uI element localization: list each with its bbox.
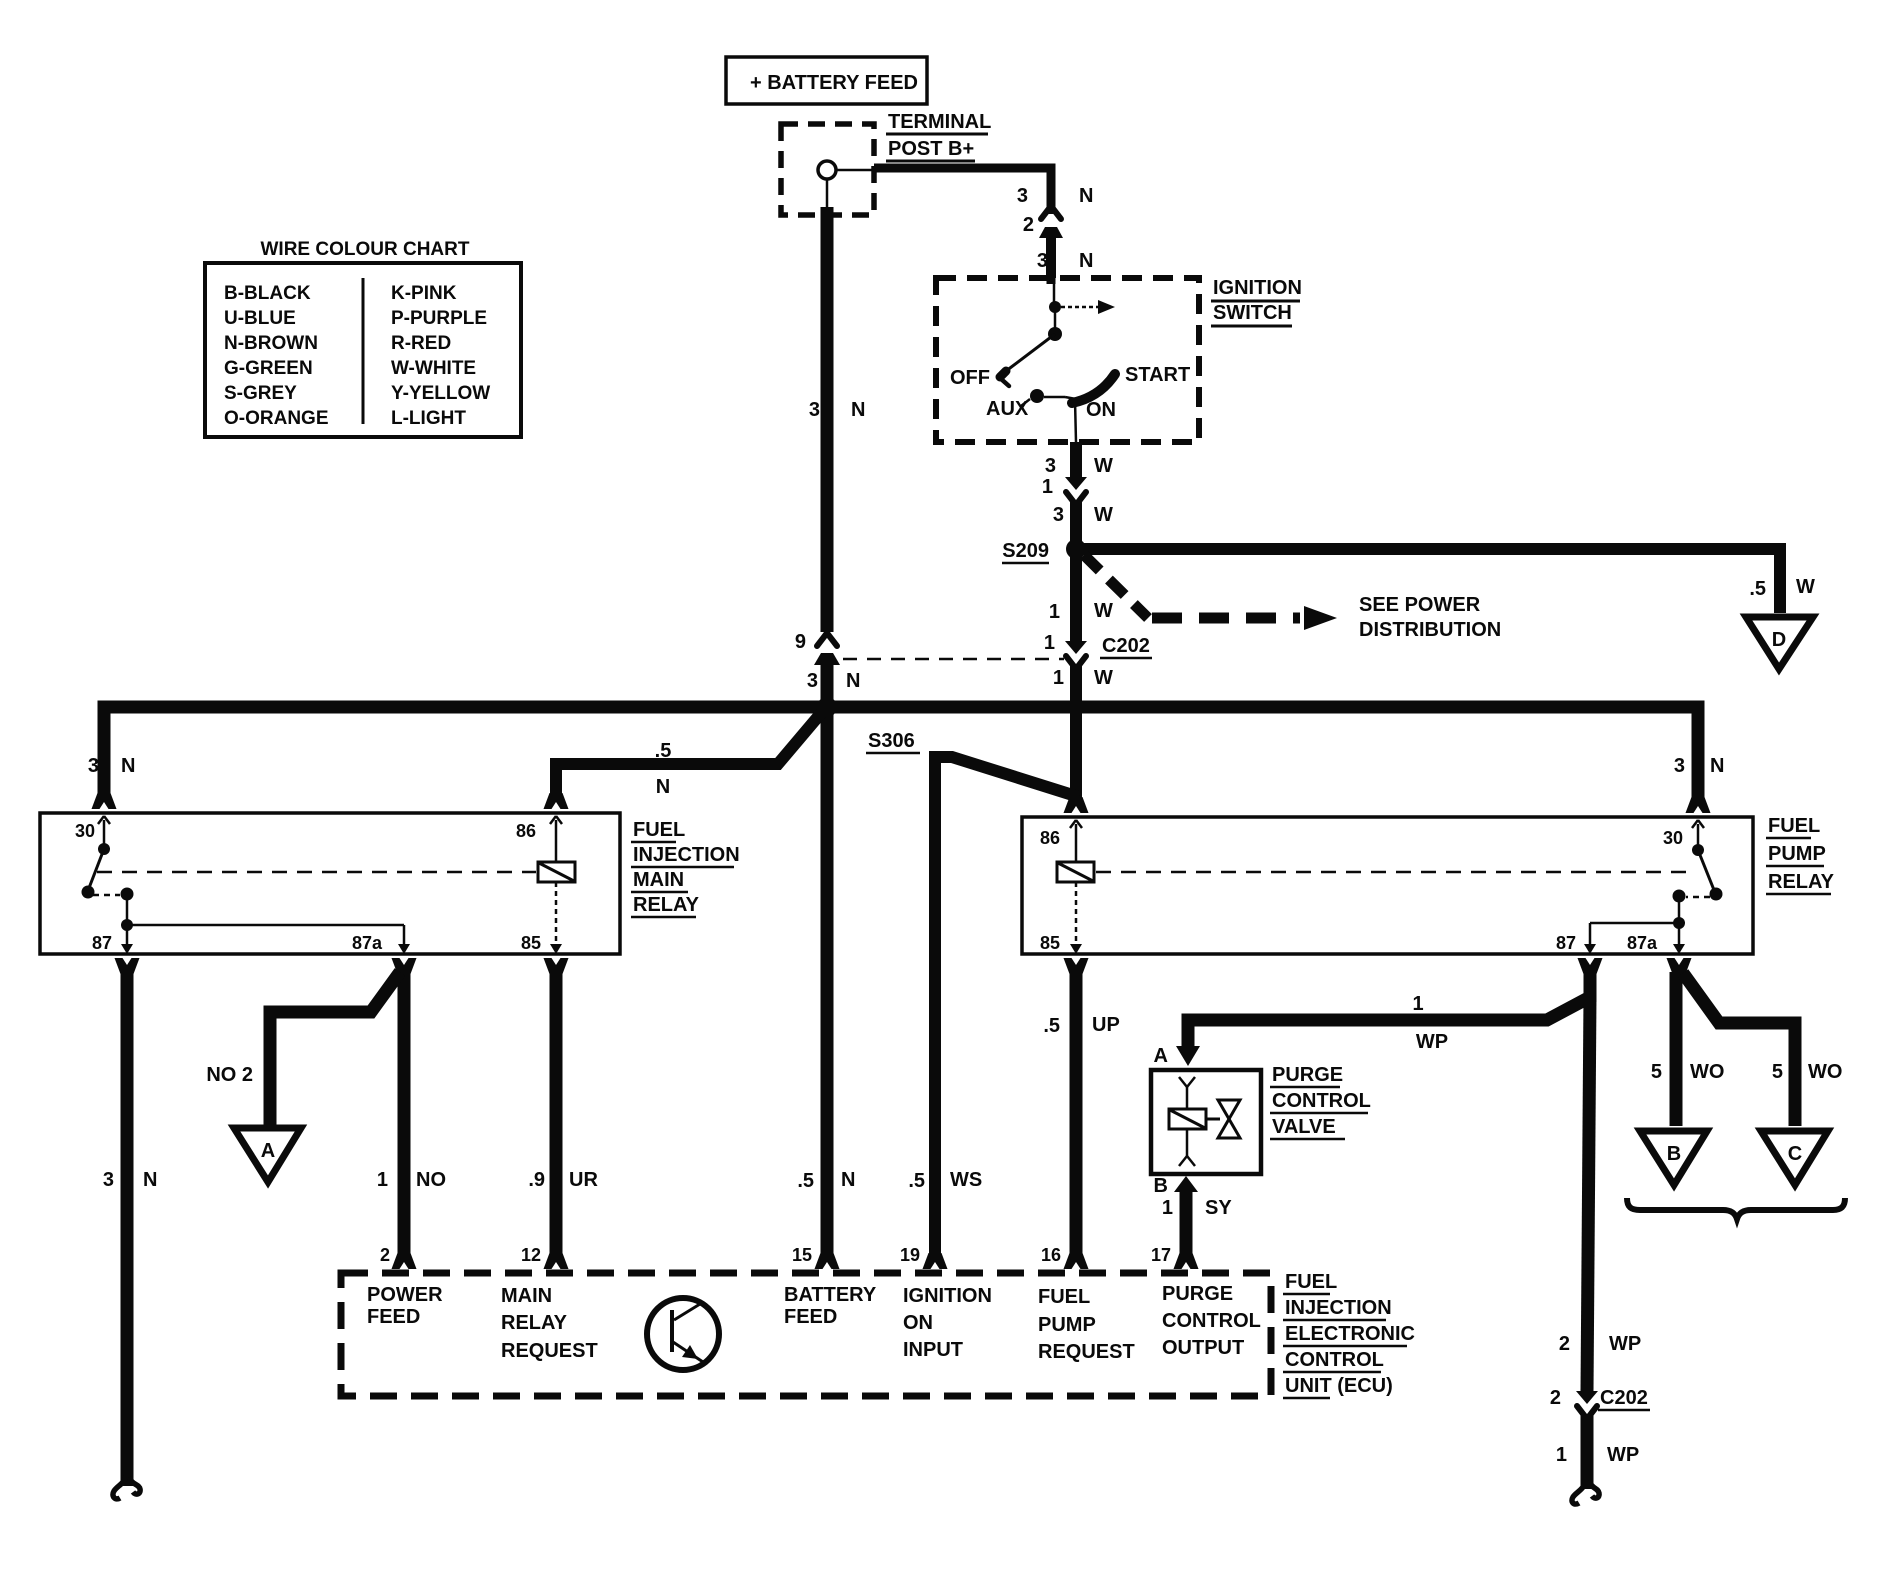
- svg-text:U-BLUE: U-BLUE: [224, 308, 296, 329]
- svg-text:3: 3: [809, 399, 820, 421]
- arrow into purge valve pin A: [1176, 1046, 1200, 1066]
- svg-text:2: 2: [1559, 1333, 1570, 1355]
- switch inside main relay: [82, 820, 411, 954]
- wire: feed into switch: [1047, 278, 1056, 284]
- svg-text:87: 87: [1556, 933, 1576, 953]
- svg-text:ON: ON: [903, 1312, 933, 1334]
- svg-text:2: 2: [380, 1245, 390, 1265]
- pin 87a bottom fork (pump relay): [1667, 958, 1692, 974]
- pin 87 bottom fork (pump relay): [1578, 958, 1603, 974]
- pin 86 terminal fork (main relay): [516, 793, 569, 841]
- svg-text:WP: WP: [1416, 1031, 1448, 1053]
- node: wiper pivot dot: [1048, 327, 1062, 341]
- svg-text:5: 5: [1651, 1061, 1662, 1083]
- pin 85 bottom fork (pump relay): [1064, 958, 1089, 974]
- wire end hook (3 N): [113, 1476, 126, 1499]
- svg-text:W-WHITE: W-WHITE: [391, 358, 476, 379]
- C202 label: [1100, 635, 1152, 658]
- svg-text:.9: .9: [528, 1169, 545, 1191]
- ECU transistor symbol: [647, 1298, 719, 1370]
- AUX contact dot: [1030, 389, 1044, 403]
- wire: main relay 85 to ECU pin 12 (.9 UR): [550, 972, 563, 1254]
- svg-text:RELAY: RELAY: [1768, 871, 1835, 893]
- svg-text:UNIT (ECU): UNIT (ECU): [1285, 1375, 1393, 1397]
- svg-text:16: 16: [1041, 1245, 1061, 1265]
- svg-text:B: B: [1667, 1143, 1681, 1165]
- pin 30 terminal fork (pump relay): [1663, 797, 1711, 848]
- FUEL PUMP RELAY label: [1766, 815, 1835, 894]
- svg-text:WIRE COLOUR CHART: WIRE COLOUR CHART: [261, 239, 470, 260]
- connector C202 lower (arrow down, fork below): [1550, 1387, 1598, 1419]
- svg-text:UR: UR: [569, 1169, 598, 1191]
- svg-text:POST B+: POST B+: [888, 138, 974, 160]
- node S209 dot overlay: [1066, 539, 1086, 559]
- svg-text:12: 12: [521, 1245, 541, 1265]
- wire: connector 2 to ignition switch box (3 N): [1046, 234, 1056, 278]
- svg-text:WP: WP: [1607, 1444, 1639, 1466]
- svg-text:B-BLACK: B-BLACK: [224, 283, 311, 304]
- wire colour chart left column: [224, 283, 329, 429]
- svg-text:1: 1: [1162, 1197, 1173, 1219]
- svg-text:POWER: POWER: [367, 1284, 443, 1306]
- wire: branch to purge valve A (1 WP): [1188, 996, 1592, 1048]
- pin 87 bottom fork (main relay): [115, 958, 140, 974]
- svg-text:A: A: [1154, 1045, 1168, 1067]
- svg-text:1: 1: [1049, 601, 1060, 623]
- wire: ignition on input to ECU pin 19 and relay 86 (.5 WS): [935, 757, 1079, 1254]
- main feed horizontal wire (S306 net): [104, 707, 1698, 798]
- svg-text:WO: WO: [1808, 1061, 1842, 1083]
- wire: circle down inside box: [826, 179, 829, 215]
- svg-text:REQUEST: REQUEST: [1038, 1341, 1135, 1363]
- svg-text:L-LIGHT: L-LIGHT: [391, 408, 466, 429]
- wire: pump relay 87 down (WP net): [1584, 972, 1597, 1002]
- svg-text:1: 1: [1044, 632, 1055, 654]
- ECU pin function labels: [367, 1283, 1261, 1363]
- svg-text:W: W: [1094, 504, 1113, 526]
- wire: terminal post to ignition switch (3 N): [874, 168, 1051, 214]
- svg-text:2: 2: [1023, 214, 1034, 236]
- svg-text:30: 30: [1663, 828, 1683, 848]
- svg-text:FEED: FEED: [784, 1306, 837, 1328]
- svg-text:3: 3: [1017, 185, 1028, 207]
- ON contact and START arc: [1065, 397, 1076, 399]
- svg-text:86: 86: [1040, 828, 1060, 848]
- FUEL INJECTION ELECTRONIC CONTROL UNIT (ECU) label: [1283, 1271, 1415, 1398]
- svg-text:5: 5: [1772, 1061, 1783, 1083]
- svg-text:WP: WP: [1609, 1333, 1641, 1355]
- ECU pin 16 fork: [1041, 1245, 1089, 1269]
- svg-text:C: C: [1788, 1143, 1802, 1165]
- svg-text:INPUT: INPUT: [903, 1339, 963, 1361]
- fuel pump relay box: [1022, 817, 1753, 954]
- svg-text:MAIN: MAIN: [633, 869, 684, 891]
- terminal post circle: [818, 161, 836, 179]
- svg-text:9: 9: [795, 631, 806, 653]
- svg-text:FUEL: FUEL: [1285, 1271, 1337, 1293]
- svg-text:N: N: [841, 1169, 855, 1191]
- svg-text:K-PINK: K-PINK: [391, 283, 457, 304]
- battery feed label box: [726, 57, 927, 104]
- svg-text:O-ORANGE: O-ORANGE: [224, 408, 329, 429]
- svg-text:Y-YELLOW: Y-YELLOW: [391, 383, 490, 404]
- svg-text:TERMINAL: TERMINAL: [888, 111, 991, 133]
- triangle D: [1746, 617, 1813, 669]
- svg-text:.5: .5: [797, 1170, 814, 1192]
- svg-text:C202: C202: [1600, 1387, 1648, 1409]
- svg-text:WO: WO: [1690, 1061, 1724, 1083]
- wire: battery feed to S306 and ECU pin 15 (3 N / .5 N): [821, 660, 834, 1254]
- svg-text:30: 30: [75, 821, 95, 841]
- node TERMINAL POST B+ label: [886, 111, 991, 161]
- brace under triangles B and C: [1627, 1198, 1845, 1219]
- wire: dot to wiper pivot: [1054, 307, 1057, 331]
- ECU pin 17 fork: [1151, 1245, 1199, 1269]
- svg-text:S-GREY: S-GREY: [224, 383, 297, 404]
- svg-text:FEED: FEED: [367, 1306, 420, 1328]
- svg-text:OUTPUT: OUTPUT: [1162, 1337, 1244, 1359]
- svg-text:3: 3: [1674, 755, 1685, 777]
- svg-text:3: 3: [103, 1169, 114, 1191]
- svg-text:SEE POWER: SEE POWER: [1359, 594, 1481, 616]
- connector 9 on battery feed (fork above, arrow below): [795, 631, 840, 665]
- svg-text:PUMP: PUMP: [1038, 1314, 1096, 1336]
- svg-text:15: 15: [792, 1245, 812, 1265]
- svg-text:1: 1: [1053, 667, 1064, 689]
- svg-text:86: 86: [516, 821, 536, 841]
- svg-text:3: 3: [1053, 504, 1064, 526]
- svg-text:SY: SY: [1205, 1197, 1232, 1219]
- wire: ON contact to box bottom: [1075, 400, 1076, 442]
- svg-text:VALVE: VALVE: [1272, 1116, 1336, 1138]
- svg-text:START: START: [1125, 364, 1190, 386]
- svg-text:W: W: [1094, 667, 1113, 689]
- connector 1 (arrow down, fork below): [1042, 476, 1087, 505]
- IGNITION SWITCH label: [1211, 277, 1302, 326]
- svg-text:3: 3: [1037, 250, 1048, 272]
- svg-text:N: N: [851, 399, 865, 421]
- svg-text:CONTROL: CONTROL: [1272, 1090, 1371, 1112]
- svg-text:N: N: [143, 1169, 157, 1191]
- wire: pump relay 87a to triangle B (5 WO): [1670, 972, 1683, 1126]
- wire: C202 to fuel pump (1 WP): [1581, 1415, 1594, 1489]
- svg-text:MAIN: MAIN: [501, 1285, 552, 1307]
- svg-text:INJECTION: INJECTION: [1285, 1297, 1392, 1319]
- terminal post B+ dashed box: [781, 124, 874, 215]
- wire: branch to triangle A (NO 2): [270, 972, 400, 1126]
- svg-text:IGNITION: IGNITION: [1213, 277, 1302, 299]
- svg-text:S209: S209: [1002, 540, 1049, 562]
- wire: purge valve B to ECU pin 17 (1 SY): [1180, 1188, 1193, 1254]
- svg-text:PURGE: PURGE: [1272, 1064, 1343, 1086]
- svg-text:IGNITION: IGNITION: [903, 1285, 992, 1307]
- ECU pin 2 fork: [380, 1245, 417, 1269]
- wire: battery feed down from terminal post (3 N): [821, 207, 834, 632]
- wire: C202 to fuel pump relay 86 (1 W): [1070, 665, 1082, 798]
- C202 lower label: [1598, 1387, 1650, 1410]
- svg-text:D: D: [1772, 629, 1786, 651]
- svg-text:ON: ON: [1086, 399, 1116, 421]
- svg-text:W: W: [1796, 576, 1815, 598]
- svg-text:.5: .5: [1749, 578, 1766, 600]
- svg-text:N: N: [1079, 185, 1093, 207]
- relay coil (pump relay): [1040, 824, 1094, 954]
- svg-text:G-GREEN: G-GREEN: [224, 358, 313, 379]
- svg-text:CONTROL: CONTROL: [1162, 1310, 1261, 1332]
- wire: S209 down to C202 (1 W): [1070, 556, 1082, 641]
- svg-text:.5: .5: [1043, 1015, 1060, 1037]
- wire: branch to triangle C (5 WO): [1683, 973, 1795, 1126]
- node: battery feed dot: [1049, 301, 1061, 313]
- svg-text:85: 85: [521, 933, 541, 953]
- svg-text:FUEL: FUEL: [1038, 1286, 1090, 1308]
- ECU pin 15 fork: [792, 1245, 840, 1269]
- wire: ignition ON output (3 W): [1070, 442, 1082, 477]
- svg-text:R-RED: R-RED: [391, 333, 451, 354]
- wire colour chart box: [205, 263, 521, 437]
- ignition switch internals: [950, 278, 1190, 442]
- purge control valve box: [1151, 1070, 1261, 1174]
- ECU dashed box: [341, 1273, 1271, 1396]
- svg-text:RELAY: RELAY: [633, 894, 700, 916]
- svg-text:C202: C202: [1102, 635, 1150, 657]
- svg-text:AUX: AUX: [986, 398, 1029, 420]
- svg-text:N: N: [121, 755, 135, 777]
- wire: connector to S209 (3 W): [1070, 501, 1082, 549]
- PURGE CONTROL VALVE label: [1270, 1064, 1371, 1139]
- svg-text:B: B: [1154, 1175, 1168, 1197]
- svg-text:N: N: [846, 670, 860, 692]
- triangle A: [234, 1128, 301, 1182]
- svg-text:REQUEST: REQUEST: [501, 1340, 598, 1362]
- svg-text:N: N: [1710, 755, 1724, 777]
- svg-text:1: 1: [1042, 476, 1053, 498]
- svg-text:W: W: [1094, 455, 1113, 477]
- pin 30 terminal fork (main relay): [75, 793, 117, 841]
- svg-text:85: 85: [1040, 933, 1060, 953]
- svg-text:SWITCH: SWITCH: [1213, 302, 1292, 324]
- svg-text:OFF: OFF: [950, 367, 990, 389]
- connector 2 (female fork above, male arrow below): [1023, 206, 1063, 238]
- svg-text:PUMP: PUMP: [1768, 843, 1826, 865]
- svg-text:.5: .5: [655, 740, 672, 762]
- svg-text:A: A: [261, 1140, 275, 1162]
- svg-text:2: 2: [1550, 1387, 1561, 1409]
- triangle C: [1761, 1131, 1828, 1185]
- pin 87a bottom fork (main relay): [392, 958, 417, 974]
- wire colour chart right column: [391, 283, 490, 429]
- node S306 dot overlay: [817, 697, 837, 717]
- coil axis dashed (pump relay): [1096, 871, 1692, 874]
- svg-text:1: 1: [1412, 993, 1423, 1015]
- pin 86 terminal fork (pump relay): [1040, 797, 1089, 848]
- wire: pump relay 85 to ECU pin 16 (.5 UP): [1070, 972, 1083, 1254]
- svg-text:INJECTION: INJECTION: [633, 844, 740, 866]
- svg-text:N-BROWN: N-BROWN: [224, 333, 318, 354]
- svg-text:FUEL: FUEL: [633, 819, 685, 841]
- SEE POWER DISTRIBUTION label: [1359, 594, 1501, 641]
- ECU pin 19 fork: [900, 1245, 948, 1269]
- svg-text:RELAY: RELAY: [501, 1312, 568, 1334]
- switch wiper blade to OFF: [1006, 334, 1055, 371]
- triangle B: [1640, 1131, 1707, 1185]
- wire end hook (1 WP): [1572, 1480, 1586, 1504]
- wire colour chart divider: [362, 278, 365, 424]
- svg-text:17: 17: [1151, 1245, 1171, 1265]
- svg-text:FUEL: FUEL: [1768, 815, 1820, 837]
- svg-text:P-PURPLE: P-PURPLE: [391, 308, 487, 329]
- svg-text:NO 2: NO 2: [206, 1064, 253, 1086]
- node S209: [1067, 540, 1085, 558]
- wire: pump relay 87 to C202 (2 WP): [1587, 996, 1590, 1391]
- wire: main relay 87 down (3 N): [121, 972, 134, 1486]
- svg-text:WS: WS: [950, 1169, 982, 1191]
- wire: S209 to triangle D (.5 W): [1082, 549, 1780, 613]
- svg-text:.5: .5: [908, 1170, 925, 1192]
- svg-text:PURGE: PURGE: [1162, 1283, 1233, 1305]
- svg-text:+ BATTERY FEED: + BATTERY FEED: [750, 72, 918, 94]
- svg-text:NO: NO: [416, 1169, 446, 1191]
- svg-text:S306: S306: [868, 730, 915, 752]
- svg-text:87a: 87a: [352, 933, 383, 953]
- C202 boundary dashed line: [843, 658, 1064, 661]
- svg-text:19: 19: [900, 1245, 920, 1265]
- svg-text:3: 3: [88, 755, 99, 777]
- connector C202 on W wire (arrow down, fork below): [1044, 632, 1087, 669]
- fuel injection main relay box: [40, 813, 620, 954]
- purge valve internals: [1169, 1077, 1240, 1166]
- arrow to accessories: [1061, 306, 1098, 309]
- svg-text:3: 3: [807, 670, 818, 692]
- ignition switch dashed box: [936, 278, 1199, 442]
- wire: circle stub to box edge: [836, 169, 874, 172]
- pin 85 bottom fork (main relay): [544, 958, 569, 974]
- svg-text:BATTERY: BATTERY: [784, 1284, 877, 1306]
- relay coil (main relay): [521, 820, 575, 954]
- svg-text:ELECTRONIC: ELECTRONIC: [1285, 1323, 1415, 1345]
- coil axis dashed (main relay): [97, 871, 536, 874]
- svg-text:N: N: [1079, 250, 1093, 272]
- ECU pin 12 fork: [521, 1245, 569, 1269]
- arrow out of purge valve pin B: [1174, 1176, 1198, 1192]
- wire: S306 to fuel injection main relay 86 (.5 N): [556, 712, 822, 794]
- svg-text:3: 3: [1045, 455, 1056, 477]
- switch inside pump relay: [1556, 824, 1723, 954]
- svg-text:1: 1: [1556, 1444, 1567, 1466]
- svg-text:DISTRIBUTION: DISTRIBUTION: [1359, 619, 1501, 641]
- FUEL INJECTION MAIN RELAY label: [631, 819, 740, 917]
- svg-text:1: 1: [377, 1169, 388, 1191]
- svg-text:N: N: [656, 776, 670, 798]
- svg-text:UP: UP: [1092, 1014, 1120, 1036]
- node S306: [818, 698, 836, 716]
- svg-text:87a: 87a: [1627, 933, 1658, 953]
- wire: main relay 87a to ECU pin 2 (1 NO): [398, 972, 411, 1254]
- svg-text:CONTROL: CONTROL: [1285, 1349, 1384, 1371]
- svg-text:87: 87: [92, 933, 112, 953]
- svg-text:W: W: [1094, 600, 1113, 622]
- dashed arrow: see power distribution: [1084, 555, 1337, 630]
